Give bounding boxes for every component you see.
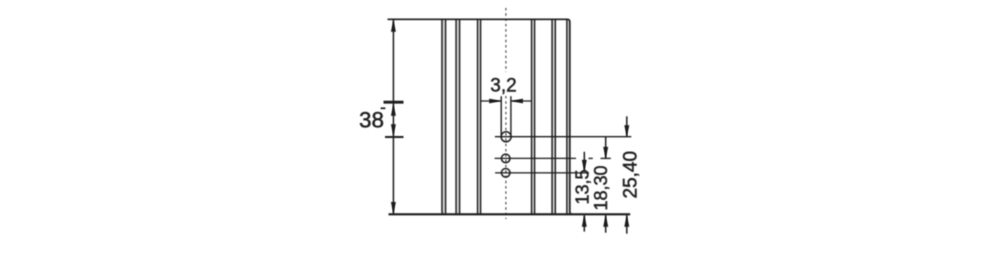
- svg-text:25,40: 25,40: [621, 151, 642, 199]
- svg-text:3,2: 3,2: [490, 75, 516, 96]
- svg-text:38: 38: [359, 108, 384, 133]
- svg-text:13,5: 13,5: [573, 169, 593, 204]
- svg-text:18,30: 18,30: [591, 165, 611, 210]
